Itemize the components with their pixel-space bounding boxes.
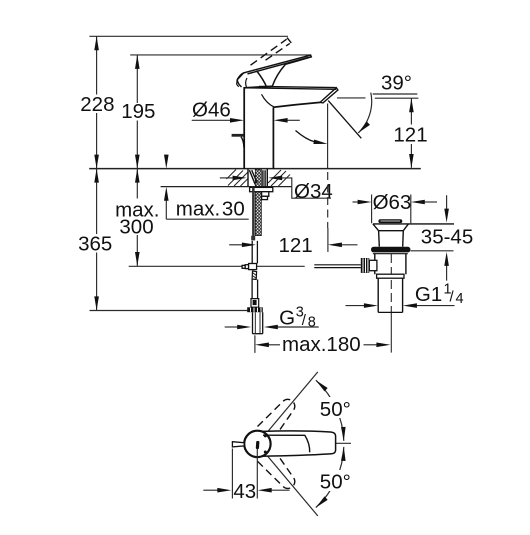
upper reference line (195 datum) — [130, 54, 311, 56]
countertop line — [89, 168, 421, 170]
top view: raised handle position upper (dashed) — [258, 399, 295, 429]
G1 1/4 label leader — [346, 305, 455, 307]
pop-up pull rod below counter — [251, 187, 255, 240]
pop-up pull rod knob at rear — [232, 134, 244, 148]
pop-up waste gasket — [371, 247, 410, 253]
arrowheads 228 dimension — [94, 36, 99, 168]
top view: pivot pin slot — [256, 441, 260, 449]
svg-text:121: 121 — [393, 124, 427, 147]
rod coupling fitting — [242, 264, 257, 270]
svg-text:Ø46: Ø46 — [192, 98, 231, 121]
dimension D63 arrows — [353, 201, 438, 203]
arrowheads max300 dimension — [135, 169, 140, 266]
pop-up waste plug cap — [378, 219, 402, 223]
spout/body crease — [262, 94, 274, 107]
dimension 43 extension lines — [232, 449, 257, 499]
svg-text:Ø63: Ø63 — [373, 191, 412, 214]
dimension D34 arrows and leader — [220, 178, 331, 198]
svg-text:Ø34: Ø34 — [294, 180, 333, 203]
threaded stud (hatched) — [255, 169, 261, 235]
pop-up waste drain pipe — [378, 278, 402, 312]
39 degree arc with arrow — [358, 93, 371, 133]
rod end block — [251, 299, 259, 308]
svg-text:121: 121 — [278, 234, 312, 257]
lever handle — [237, 55, 311, 87]
svg-text:G1: G1 — [415, 283, 442, 306]
svg-text:max. 30: max. 30 — [176, 198, 245, 221]
svg-text:G: G — [279, 306, 295, 329]
coupling screw block — [252, 271, 257, 280]
max300 bottom reference line — [129, 265, 305, 267]
svg-text:4: 4 — [456, 291, 464, 307]
counter bottom line — [161, 186, 292, 188]
top view: rod tab — [232, 442, 244, 447]
pop-up waste centerline — [390, 254, 392, 353]
top view: handle centerline — [302, 442, 351, 444]
text 195 — [121, 100, 156, 123]
dimension line 228/365 (left vertical) — [96, 36, 98, 310]
stream direction curved leader arrow — [296, 131, 315, 142]
121 top reference line — [337, 97, 418, 99]
svg-text:8: 8 — [308, 314, 316, 330]
faucet body — [244, 86, 320, 169]
top view: blade inner contour — [263, 435, 310, 452]
pop-up operating rod — [314, 265, 361, 268]
dimension line 195/max300 vertical — [136, 55, 138, 266]
counter hatching right of shank — [268, 170, 290, 186]
supply pipe extension line — [254, 335, 256, 353]
arrowheads 365 dimension — [94, 169, 99, 311]
pop-up waste flange — [373, 224, 454, 247]
svg-text:35-45: 35-45 — [421, 226, 473, 249]
text max. 30 — [176, 198, 245, 221]
svg-text:50°: 50° — [320, 398, 351, 421]
arrowheads 195 dimension — [135, 55, 140, 169]
dimension D63 extension lines — [372, 195, 411, 224]
svg-text:max.180: max.180 — [282, 333, 361, 356]
text G3/8 — [279, 305, 316, 331]
dimension 35-45 reference lines — [411, 250, 454, 252]
svg-text:365: 365 — [78, 232, 112, 255]
pop-up knurled knob — [361, 258, 370, 273]
top view: lowered handle position lower (dashed) — [258, 458, 295, 488]
G3/8 supply pipe — [253, 312, 263, 334]
raised lever (dashed) — [251, 38, 292, 66]
top view: handle pivot circle — [244, 431, 270, 457]
text G1 1/4 — [415, 281, 464, 307]
top view: 50deg swing extension lines — [268, 372, 318, 516]
faucet spout top face — [244, 86, 336, 89]
counter hatching left of shank — [227, 170, 249, 187]
lower rod tube — [252, 280, 258, 299]
svg-text:228: 228 — [80, 93, 114, 116]
dimension 35-45 arrows — [446, 195, 448, 280]
gasket lip line — [373, 253, 408, 255]
text D63 — [372, 191, 411, 214]
top reference line (228 datum) — [89, 35, 288, 37]
text 228 — [80, 93, 116, 116]
text 365 — [78, 232, 114, 255]
dimension D46 leader and arrows — [192, 119, 300, 121]
G3/8 connection nut — [247, 307, 263, 312]
top view: handle blade — [262, 431, 336, 456]
spout tip vertical reference line — [327, 104, 329, 252]
faucet spout aerator face — [320, 88, 338, 103]
supply hose tube — [252, 241, 257, 264]
svg-text:50°: 50° — [320, 471, 351, 494]
text 50deg lower — [317, 470, 354, 494]
pop-up waste body — [375, 254, 406, 275]
39 degree water stream line — [328, 101, 361, 139]
365 bottom reference line — [90, 310, 252, 312]
dimension 121 horizontal arrows — [229, 244, 357, 246]
text 121 vertical — [393, 124, 429, 147]
svg-text:195: 195 — [121, 100, 155, 123]
text max. 300 — [114, 199, 161, 239]
text 50deg upper — [317, 397, 354, 421]
G3/8 label leader — [225, 326, 319, 328]
dimension max180 — [268, 344, 377, 346]
top view: swing arcs — [316, 380, 344, 507]
cartridge dome squiggle — [237, 77, 247, 87]
max30 dimension arrows and leader — [166, 155, 248, 220]
dimension 43 arrows — [203, 489, 289, 491]
dimension 121 vertical — [410, 98, 412, 168]
top view: detail dots — [264, 434, 267, 437]
svg-text:39°: 39° — [381, 72, 412, 95]
svg-text:43: 43 — [233, 480, 256, 503]
mounting shank through counter — [248, 169, 267, 186]
svg-text:300: 300 — [119, 216, 153, 239]
39 degree underline — [373, 93, 418, 95]
pop-up side port — [369, 260, 377, 270]
horseshoe washer under counter — [250, 187, 273, 199]
pop-up waste bottom flange — [377, 274, 404, 278]
